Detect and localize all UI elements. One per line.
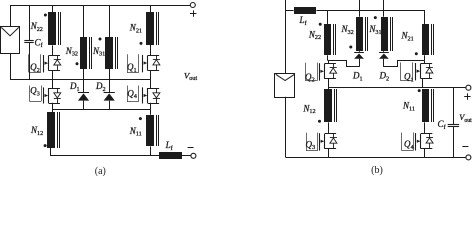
wire: N31 bottom to mid rail (a)	[109, 69, 111, 80]
svg-text:Lf: Lf	[299, 15, 308, 27]
transformer winding N32 (a)	[80, 37, 92, 69]
diode D2 (b)	[379, 53, 389, 59]
wire: diode bus (a)	[52, 109, 150, 111]
transformer winding N31 (a)	[105, 37, 118, 69]
svg-text:(b): (b)	[371, 165, 383, 176]
wire: Cf bottom lead (a)	[29, 42, 31, 79]
transformer winding N22 (a)	[48, 12, 61, 45]
diode D2 (a)	[104, 93, 115, 101]
svg-text:N12: N12	[30, 125, 43, 137]
terminal - output (b)	[462, 147, 471, 160]
svg-text:D2: D2	[379, 71, 390, 83]
terminal - output (a)	[188, 148, 196, 159]
svg-text:N21: N21	[129, 23, 142, 35]
svg-text:N21: N21	[401, 31, 414, 43]
polarity dot of transformer winding N21 (b)	[415, 52, 418, 55]
MOSFET Q3 with body diode (a)	[29, 86, 60, 104]
filter inductor Lf (a)	[159, 152, 182, 159]
wire: D1 anode step wire (b)	[328, 61, 360, 67]
wire: output return to Lf (a)	[150, 155, 159, 157]
wire: N32 bottom to mid rail (a)	[83, 69, 85, 80]
svg-text:N12: N12	[302, 103, 315, 115]
polarity dot of transformer winding N31 (a)	[99, 38, 102, 41]
PV source panel (b)	[275, 74, 295, 98]
wire: top rail (b)	[316, 10, 425, 12]
wire: Q3 source to N12 (a)	[52, 103, 54, 112]
MOSFET Q2 with body diode (b)	[305, 63, 336, 81]
wire: PV positive lead (a)	[10, 5, 12, 26]
wire: D2 cathode lead (a)	[109, 80, 111, 93]
terminal + output (a)	[190, 3, 196, 17]
wire: Q2 source to Q3 drain (a)	[52, 70, 54, 88]
wire: N12 bottom to output return (a)	[51, 148, 160, 156]
MOSFET Q3 with body diode (b)	[306, 133, 337, 151]
capacitor Cf (a)	[24, 41, 33, 43]
wire: N32 branch from top rail (a)	[83, 5, 85, 37]
wire: N12 bottom to Q3 drain (b)	[328, 122, 330, 133]
wire: N32 column (b)	[359, 0, 361, 17]
filter inductor Lf (b)	[294, 7, 316, 14]
wire: bottom rail (b)	[286, 157, 467, 159]
svg-text:N11: N11	[402, 101, 415, 113]
wire: mid rail from PV to Q1/Q4 midpoint (a)	[10, 79, 150, 81]
svg-text:Q4: Q4	[404, 139, 415, 151]
wire: left rail (b)	[285, 0, 287, 73]
svg-text:Vout: Vout	[459, 113, 472, 124]
wire: Cf branch from top rail (a)	[29, 5, 31, 40]
svg-text:Q3: Q3	[306, 139, 316, 151]
polarity dot of transformer winding N11 (b)	[418, 89, 421, 92]
transformer winding N12 (b)	[324, 89, 337, 122]
transformer winding N11 (b)	[422, 89, 434, 122]
wire: Q1 source to plus wire (b)	[422, 79, 424, 88]
wire: Q4 source to bottom rail (b)	[424, 149, 426, 158]
polarity dot of transformer winding N11 (a)	[139, 117, 142, 120]
wire: Q2 drain lead (b)	[328, 60, 330, 64]
wire: N21 top lead (a)	[150, 5, 152, 12]
MOSFET Q4 with body diode (b)	[402, 133, 434, 151]
svg-text:Lf: Lf	[165, 140, 174, 152]
wire: N11 bottom to output return (a)	[150, 146, 152, 155]
polarity dot of transformer winding N12 (b)	[318, 120, 321, 123]
wire: Q1 source to Q4 drain (a)	[150, 70, 152, 88]
wire: Q2 source to N12 (b)	[328, 79, 330, 90]
svg-text:Q2: Q2	[305, 72, 315, 84]
svg-text:D1: D1	[69, 81, 80, 93]
wire: circuit (a) top rail	[11, 5, 191, 7]
svg-text:Q3: Q3	[30, 86, 40, 98]
wire: PV negative lead (a)	[10, 54, 12, 80]
wire: PV negative lead (b)	[285, 97, 287, 158]
wire: output rail upper segment (b)	[453, 88, 455, 125]
wire: N31 bottom to D2 (b)	[383, 51, 385, 53]
wire: N22 top lead (a)	[52, 5, 54, 12]
diode D1 (b)	[354, 53, 364, 59]
capacitor Cf (b)	[448, 125, 459, 127]
MOSFET Q4 with body diode (a)	[127, 86, 160, 104]
svg-text:N31: N31	[368, 24, 381, 36]
polarity dot of transformer winding N31 (b)	[374, 16, 377, 19]
svg-text:Q2: Q2	[30, 62, 40, 74]
svg-text:N32: N32	[65, 46, 78, 58]
polarity dot of transformer winding N21 (a)	[140, 42, 143, 45]
svg-text:N22: N22	[30, 21, 43, 33]
wire: N22 to Q2 drain (a)	[52, 45, 54, 55]
svg-text:N32: N32	[341, 24, 354, 36]
terminal + output (b)	[464, 85, 471, 100]
wire: D2 anode to bus (a)	[109, 101, 111, 110]
polarity dot of transformer winding N22 (b)	[319, 23, 322, 26]
wire: N21 top lead (b)	[424, 10, 426, 24]
wire: Lf to minus terminal (a)	[182, 155, 191, 157]
polarity dot of transformer winding N12 (a)	[44, 144, 47, 147]
wire: N31 branch from top rail (a)	[109, 5, 111, 37]
transformer winding N11 (a)	[146, 115, 159, 146]
svg-text:(a): (a)	[95, 166, 106, 176]
wire: Q1 drain lead (b)	[424, 60, 426, 63]
svg-text:D1: D1	[352, 71, 363, 83]
wire: N11 bottom to Q4 drain (b)	[424, 122, 426, 133]
wire: D2 anode lead (b)	[383, 59, 385, 67]
wire: output plus wire (b)	[328, 87, 466, 89]
transformer winding N32 (b)	[356, 17, 368, 51]
svg-text:Q4: Q4	[127, 88, 138, 100]
wire: D2 anode step wire (b)	[384, 61, 425, 67]
wire: output rail lower segment (b)	[453, 127, 455, 158]
transformer winding N12 (a)	[47, 112, 60, 148]
wire: D1 cathode lead (a)	[83, 80, 85, 93]
MOSFET Q2 with body diode (a)	[29, 54, 61, 72]
wire: Q3 source to bottom rail (b)	[328, 149, 330, 158]
wire: N31 column (b)	[383, 0, 385, 17]
svg-text:N11: N11	[129, 126, 142, 138]
polarity dot of transformer winding N32 (a)	[76, 62, 79, 65]
MOSFET Q1 with body diode (b)	[400, 62, 433, 80]
polarity dot of transformer winding N32 (b)	[349, 46, 352, 49]
svg-text:N31: N31	[92, 46, 105, 58]
svg-text:N22: N22	[308, 29, 321, 41]
wire: top rail left segment (b)	[286, 10, 294, 12]
svg-text:Cf: Cf	[35, 37, 44, 49]
wire: N22 bottom to Q2 drain node (b)	[327, 55, 329, 60]
polarity dot of transformer winding N22 (a)	[44, 14, 47, 17]
svg-text:D2: D2	[95, 81, 106, 93]
wire: D1 anode lead (b)	[359, 59, 361, 67]
svg-text:Vout: Vout	[184, 70, 198, 82]
transformer winding N21 (b)	[422, 24, 434, 55]
wire: N21 bottom to Q1 drain node (b)	[424, 55, 426, 60]
transformer winding N31 (b)	[381, 17, 393, 51]
transformer winding N22 (b)	[324, 24, 336, 55]
diode D1 (a)	[78, 93, 89, 101]
MOSFET Q1 with body diode (a)	[127, 54, 160, 72]
transformer winding N21 (a)	[146, 12, 159, 45]
wire: N32 bottom to D1 (b)	[359, 51, 361, 53]
wire: D1 anode to bus (a)	[83, 101, 85, 110]
wire: N21 to Q1 drain (a)	[150, 45, 152, 56]
PV source panel (a)	[1, 27, 20, 54]
wire: N22 top lead (b)	[327, 10, 329, 24]
svg-text:Cf: Cf	[438, 119, 447, 131]
wire: Q4 source to N11 (a)	[150, 103, 152, 115]
